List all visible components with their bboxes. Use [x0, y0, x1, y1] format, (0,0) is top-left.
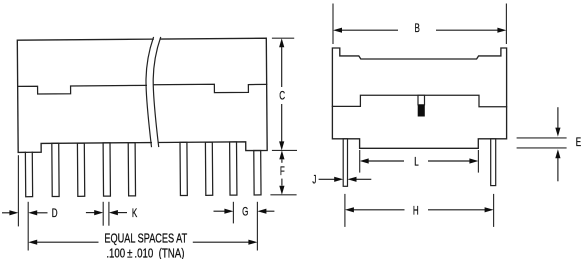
equal-spaces dim line left: [37, 241, 99, 243]
extension line pin9 centre (G / equal spaces): [256, 202, 258, 251]
E extension line bottom: [517, 147, 567, 149]
svg-text:B: B: [415, 23, 420, 36]
pin 2 (left view): [52, 143, 59, 196]
dim H line: [354, 209, 405, 211]
H extension line right: [493, 194, 495, 227]
svg-text:E: E: [576, 137, 581, 150]
svg-text:L: L: [414, 156, 419, 169]
mid parting line left half with notch: [18, 85, 147, 94]
break line curve right: [153, 37, 162, 146]
polarising pin black part: [418, 105, 425, 117]
svg-text:D: D: [52, 208, 58, 221]
dim J arrow left: [319, 178, 335, 180]
dim K arrow right: [118, 212, 127, 214]
internal moulding line: [332, 95, 506, 107]
svg-text:F: F: [280, 166, 285, 179]
F extension line bottom (pin tips): [270, 194, 296, 196]
L extension line right: [477, 150, 479, 173]
equal-spaces dim line right: [193, 241, 249, 243]
C/F extension line middle: [272, 149, 297, 151]
pin 6 (left view): [180, 142, 187, 195]
dim F vertical line: [281, 159, 283, 162]
B extension line right: [505, 4, 507, 45]
E extension line top: [517, 137, 567, 139]
dim C vertical line: [281, 47, 283, 87]
extension line D left (body edge): [17, 155, 19, 226]
break line curve left: [146, 38, 155, 147]
dim D arrow right: [37, 212, 48, 214]
dim E arrow up: [557, 158, 559, 181]
pin 4 (left view): [103, 143, 110, 196]
extension line pin1 centre (D / equal spaces): [27, 202, 29, 251]
dim J arrow right: [356, 178, 371, 180]
polarising pin white part: [418, 95, 425, 105]
extension line K right: [108, 202, 110, 226]
dim G arrow left: [214, 210, 225, 212]
dim G arrow right: [266, 210, 274, 212]
pin 3 (left view): [77, 143, 84, 196]
body outline right half: [158, 38, 267, 151]
dim E arrow down: [557, 107, 559, 128]
C extension line top: [272, 37, 294, 39]
end view body outline: [332, 48, 506, 148]
extension line G left: [232, 202, 234, 224]
pin 8 (left view): [230, 142, 237, 195]
svg-text:C: C: [279, 90, 285, 103]
leg right (right view): [491, 139, 496, 186]
leg left (right view): [343, 139, 347, 187]
pin 9 (left view): [254, 150, 261, 194]
svg-text:G: G: [242, 206, 248, 219]
svg-text:K: K: [132, 208, 137, 221]
svg-text:EQUAL SPACES AT: EQUAL SPACES AT: [104, 232, 187, 246]
dim K arrow left: [86, 212, 95, 214]
extension line K left: [102, 202, 104, 226]
svg-text:H: H: [413, 205, 419, 218]
B extension line left: [332, 4, 334, 45]
body outline left half: [17, 39, 154, 152]
mid parting line right half with notch: [154, 84, 267, 93]
L extension line left: [359, 150, 361, 173]
svg-text:J: J: [312, 174, 316, 187]
H extension line left: [344, 194, 346, 227]
svg-text:.100 ± .010 (TNA): .100 ± .010 (TNA): [106, 246, 184, 259]
pin 5 (left view): [128, 143, 135, 196]
dim B line: [342, 29, 398, 31]
dim L line: [368, 160, 404, 162]
pin 1 (left view, over stepped bottom): [25, 152, 32, 196]
dim D arrow left: [2, 212, 10, 214]
pin 7 (left view): [205, 142, 212, 195]
